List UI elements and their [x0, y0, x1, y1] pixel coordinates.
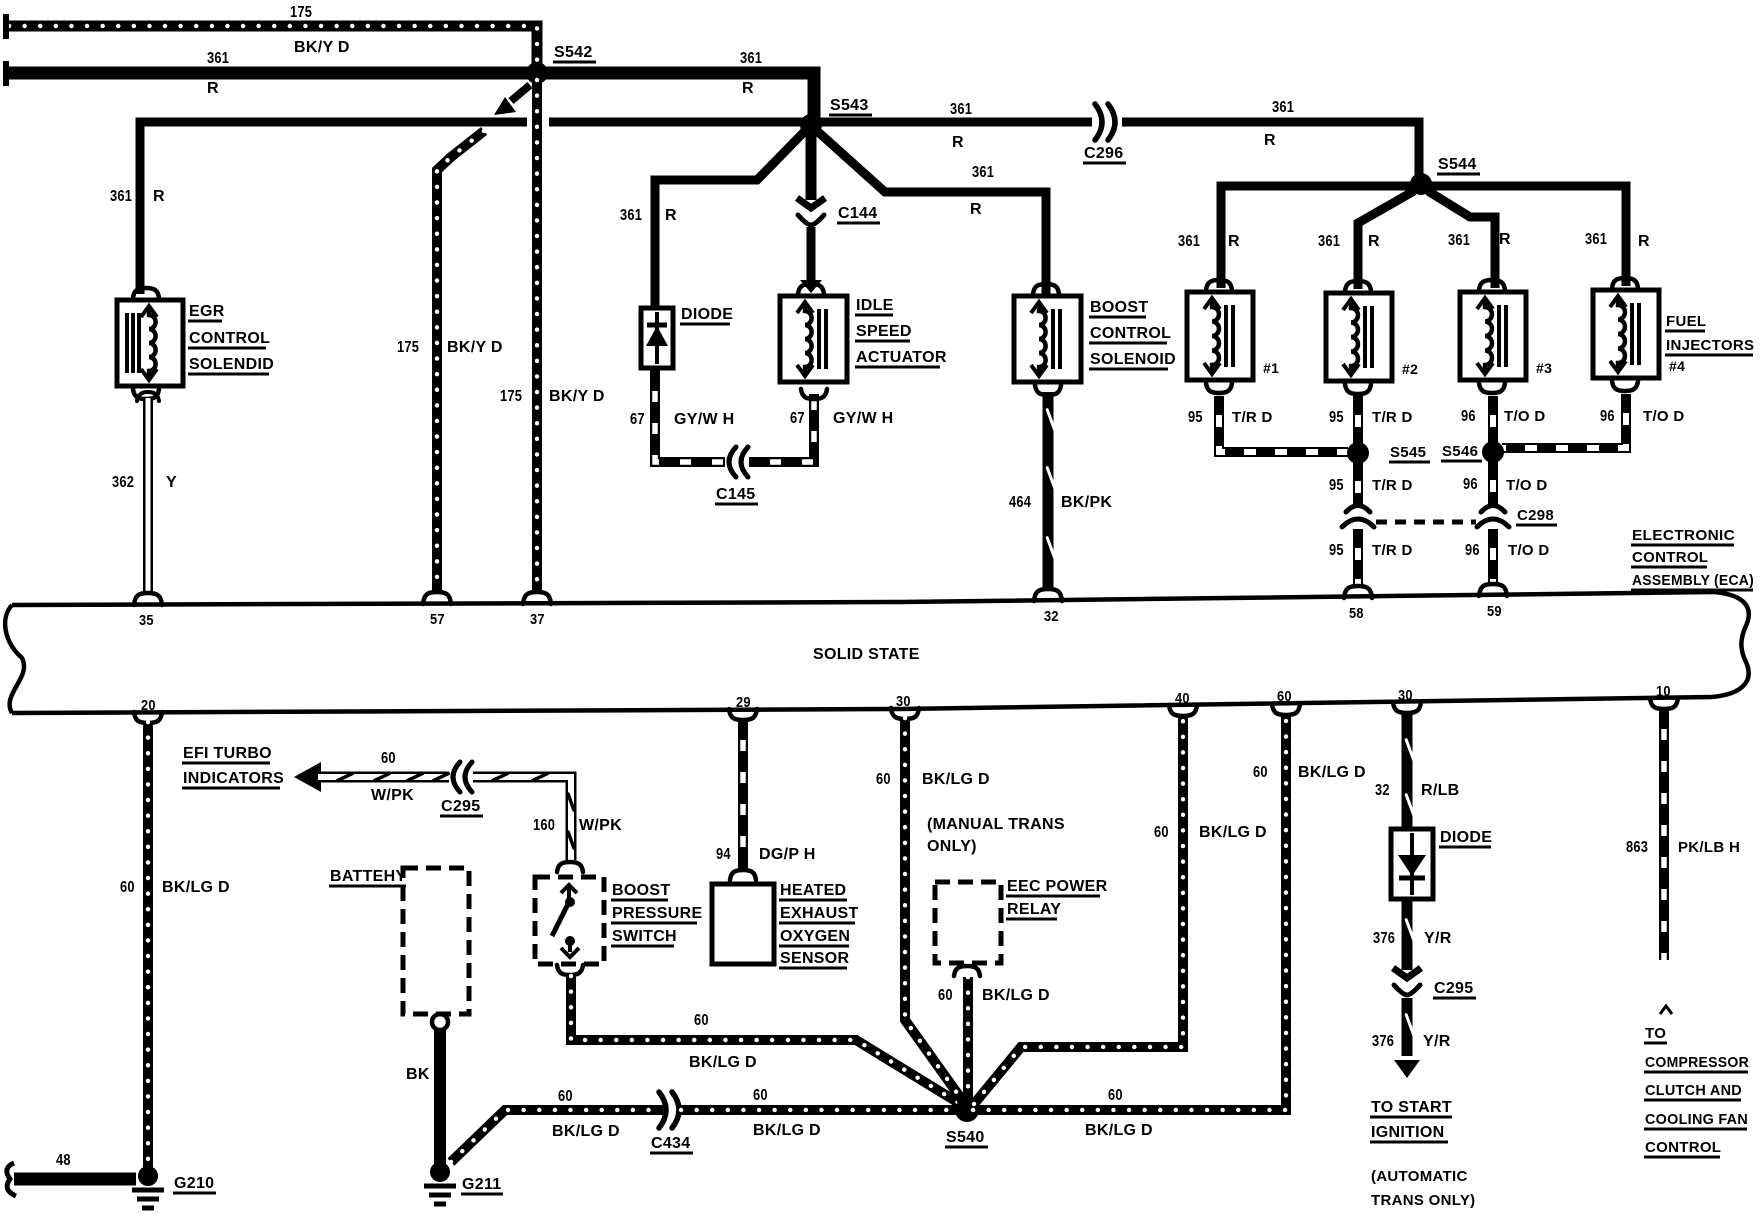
- svg-text:#1: #1: [1263, 360, 1279, 376]
- svg-text:INDICATORS: INDICATORS: [183, 770, 284, 787]
- wire 60 BK/LG D from C434 to S540: [681, 1105, 961, 1115]
- wire S544 branch to injector 1: [1221, 186, 1421, 288]
- svg-text:DG/P H: DG/P H: [759, 846, 816, 863]
- svg-text:BK/LG D: BK/LG D: [753, 1122, 821, 1139]
- svg-text:BK/Y D: BK/Y D: [447, 339, 503, 356]
- svg-text:(AUTOMATIC: (AUTOMATIC: [1371, 1168, 1468, 1185]
- wire 60 BK/LG D relay to S540: [963, 977, 973, 1100]
- wire 95 T/R D injector2 to S545: [1353, 396, 1363, 444]
- fuel injector #2 connector top: [1345, 281, 1371, 291]
- fuel injector #2: [1326, 293, 1392, 381]
- battery BAT1 (dashed): [403, 868, 469, 1014]
- wire 96 T/O D injector3 to S546: [1488, 396, 1498, 443]
- svg-text:20: 20: [141, 697, 156, 714]
- HEGO sensor connector top: [730, 870, 756, 880]
- svg-text:PRESSURE: PRESSURE: [612, 905, 702, 922]
- svg-text:48: 48: [56, 1152, 71, 1169]
- svg-text:T/O D: T/O D: [1508, 542, 1550, 559]
- svg-text:SOLENDID: SOLENDID: [189, 356, 274, 373]
- svg-text:SWITCH: SWITCH: [612, 928, 677, 945]
- svg-text:BK/LG D: BK/LG D: [922, 771, 990, 788]
- wire 96 T/O D injector4 to S546: [1502, 394, 1626, 448]
- svg-text:BK/PK: BK/PK: [1061, 494, 1112, 511]
- svg-text:TO: TO: [1645, 1025, 1666, 1042]
- EEC power relay K1 (dashed): [935, 882, 1001, 963]
- boost control solenoid connector top: [1033, 284, 1059, 294]
- connector C298 at pin59 wire: [1481, 506, 1505, 513]
- C298 dashed tie line: [1376, 520, 1476, 525]
- boost pressure switch connector bottom: [557, 965, 583, 975]
- svg-text:BK/LG D: BK/LG D: [982, 987, 1050, 1004]
- svg-text:BK/LG D: BK/LG D: [1085, 1122, 1153, 1139]
- small arrow above TO (compressor): [1660, 1006, 1672, 1014]
- cup at ECA pin 35: [134, 593, 162, 605]
- svg-text:BK: BK: [406, 1066, 430, 1083]
- svg-text:BK/Y D: BK/Y D: [549, 388, 605, 405]
- arrow to start ignition: [1394, 1060, 1420, 1078]
- svg-text:175: 175: [500, 388, 522, 405]
- svg-text:PK/LB H: PK/LB H: [1678, 839, 1740, 856]
- svg-text:37: 37: [530, 611, 545, 628]
- svg-text:362: 362: [112, 474, 134, 491]
- svg-text:IGNITION: IGNITION: [1371, 1124, 1445, 1141]
- svg-text:CONTROL: CONTROL: [1090, 325, 1171, 342]
- wire 60 BK/LG D pin30 to S540 (manual trans): [905, 718, 965, 1104]
- svg-text:361: 361: [207, 50, 229, 67]
- svg-text:INJECTORS: INJECTORS: [1666, 337, 1754, 354]
- svg-text:COMPRESSOR: COMPRESSOR: [1645, 1054, 1749, 1071]
- svg-text:361: 361: [740, 50, 762, 67]
- idle speed actuator connector top: [798, 284, 824, 294]
- wire 361 R segment across dotted crossing: [549, 118, 811, 127]
- svg-text:S546: S546: [1442, 443, 1478, 460]
- wire 32 R/LB pin30 to diode: [1402, 712, 1413, 828]
- wire 175 BK/Y D top horizontal: [9, 26, 537, 68]
- svg-text:Y: Y: [166, 474, 177, 491]
- cup at ECA pin 58: [1344, 586, 1372, 598]
- svg-text:CONTROL: CONTROL: [189, 330, 270, 347]
- splice S542: [526, 62, 548, 84]
- wire 863 PK/LB H pin10 to compressor clutch: [1659, 708, 1669, 960]
- svg-text:376: 376: [1373, 930, 1395, 947]
- svg-text:BK/LG D: BK/LG D: [162, 879, 230, 896]
- cup at ECA pin 10: [1650, 698, 1678, 709]
- idle speed actuator U2: [780, 296, 847, 382]
- svg-text:R: R: [1264, 132, 1276, 149]
- svg-text:94: 94: [716, 846, 731, 863]
- svg-text:HEATED: HEATED: [780, 882, 846, 899]
- svg-text:60: 60: [1277, 688, 1292, 705]
- connector C298 at pin58 wire: [1346, 506, 1370, 513]
- svg-text:GY/W H: GY/W H: [674, 411, 734, 428]
- splice S543: [800, 114, 822, 136]
- wire 96 T/O D from C298 to ECA pin 59: [1488, 529, 1498, 585]
- svg-text:R: R: [153, 188, 165, 205]
- wire 376 Y/R diode to C295: [1402, 899, 1413, 970]
- cup at ECA pin 57: [423, 592, 451, 604]
- boost pressure switch connector top: [557, 862, 583, 872]
- svg-text:R: R: [970, 201, 982, 218]
- svg-text:60: 60: [558, 1088, 573, 1105]
- wire 95 T/R D from S545 to C298: [1353, 462, 1363, 505]
- svg-text:57: 57: [430, 611, 445, 628]
- fuel injector #4 connector bottom: [1612, 381, 1638, 391]
- wire S544 branch to injector 3: [1428, 191, 1495, 288]
- svg-text:361: 361: [1585, 231, 1607, 248]
- svg-text:60: 60: [753, 1087, 768, 1104]
- svg-text:TRANS ONLY): TRANS ONLY): [1371, 1192, 1475, 1209]
- svg-text:#3: #3: [1536, 360, 1552, 376]
- wire 48 to G210: [14, 1173, 136, 1186]
- svg-text:BK/LG D: BK/LG D: [689, 1054, 757, 1071]
- arrow to EFI turbo indicators: [294, 762, 321, 792]
- svg-text:361: 361: [950, 101, 972, 118]
- wire 60 W/PK arrow to C295: [318, 772, 449, 783]
- cup at ECA pin 29: [729, 709, 757, 720]
- wire end cap left (175): [3, 14, 9, 39]
- svg-text:BOOST: BOOST: [612, 882, 670, 899]
- svg-text:59: 59: [1487, 603, 1502, 620]
- svg-text:96: 96: [1465, 542, 1480, 559]
- svg-text:361: 361: [110, 188, 132, 205]
- svg-text:SPEED: SPEED: [856, 323, 912, 340]
- svg-text:ONLY): ONLY): [927, 838, 977, 855]
- svg-text:FUEL: FUEL: [1666, 313, 1706, 330]
- svg-text:175: 175: [290, 4, 312, 21]
- svg-text:C295: C295: [1434, 980, 1473, 997]
- svg-text:GY/W H: GY/W H: [833, 410, 893, 427]
- svg-text:RELAY: RELAY: [1007, 901, 1061, 918]
- wire 95 T/R D injector1 to S545: [1219, 396, 1348, 452]
- fuel injector #1: [1187, 292, 1253, 380]
- heated exhaust oxygen sensor U4: [712, 884, 774, 964]
- ground G211: [430, 1162, 450, 1182]
- wire 48 curly end cap: [7, 1163, 16, 1196]
- svg-text:T/R D: T/R D: [1232, 409, 1273, 426]
- wire 60 BK/LG D switch to S540: [571, 976, 967, 1108]
- connector C296: [1104, 114, 1111, 130]
- svg-text:#2: #2: [1402, 361, 1418, 377]
- svg-text:95: 95: [1329, 409, 1344, 426]
- wire 361 R branch S543 to diode: [655, 130, 806, 306]
- svg-text:95: 95: [1329, 542, 1344, 559]
- diode D1 box: [641, 308, 673, 368]
- svg-text:C145: C145: [716, 486, 755, 503]
- svg-text:C298: C298: [1517, 507, 1554, 524]
- svg-text:30: 30: [1398, 687, 1413, 704]
- svg-text:T/O D: T/O D: [1643, 408, 1685, 425]
- wire end cap left (361): [3, 61, 9, 86]
- cup at ECA pin 32: [1034, 589, 1062, 601]
- svg-text:361: 361: [620, 207, 642, 224]
- svg-text:TO START: TO START: [1371, 1099, 1452, 1116]
- battery terminal circle: [432, 1014, 448, 1030]
- EEC power relay connector bottom: [954, 966, 980, 976]
- fuel injector #4: [1593, 290, 1659, 378]
- svg-text:60: 60: [1154, 824, 1169, 841]
- wire C144 to idle speed actuator: [807, 227, 816, 281]
- wire 60 BK/LG D S540 to ECA pin 40: [974, 715, 1183, 1104]
- svg-text:R: R: [1228, 233, 1240, 250]
- boost pressure switch SW1 (dashed): [535, 877, 604, 964]
- svg-text:ACTUATOR: ACTUATOR: [856, 349, 947, 366]
- svg-text:R: R: [207, 80, 219, 97]
- svg-text:361: 361: [1448, 232, 1470, 249]
- svg-text:R/LB: R/LB: [1421, 782, 1460, 799]
- svg-text:CONTROL: CONTROL: [1645, 1139, 1721, 1156]
- svg-text:T/R D: T/R D: [1372, 409, 1413, 426]
- svg-text:EGR: EGR: [189, 303, 225, 320]
- wire 94 DG/P H pin29 to HEGO sensor: [738, 719, 748, 868]
- svg-text:S544: S544: [1438, 156, 1477, 173]
- diode D1 symbol: [655, 312, 659, 364]
- wire 361 R main horizontal: [9, 73, 814, 122]
- svg-text:#4: #4: [1669, 358, 1685, 374]
- svg-text:W/PK: W/PK: [371, 787, 414, 804]
- svg-text:361: 361: [1178, 233, 1200, 250]
- connector C434: [668, 1102, 675, 1118]
- wire 60 BK/LG D pin20 to ground G210: [143, 722, 153, 1168]
- wire 60 BK/LG D from G211 to C434: [451, 1110, 663, 1162]
- splice S546: [1482, 441, 1504, 463]
- EGR wire top cup: [137, 392, 159, 401]
- svg-text:S540: S540: [946, 1129, 985, 1146]
- svg-text:60: 60: [1253, 764, 1268, 781]
- svg-text:29: 29: [736, 694, 751, 711]
- svg-text:95: 95: [1188, 409, 1203, 426]
- svg-text:C144: C144: [838, 205, 877, 222]
- svg-text:C434: C434: [651, 1135, 690, 1152]
- EGR control solenoid U1: [117, 300, 183, 386]
- connector C145: [734, 454, 741, 470]
- svg-text:361: 361: [1318, 233, 1340, 250]
- svg-text:Y/R: Y/R: [1424, 930, 1452, 947]
- svg-text:BK/LG D: BK/LG D: [1298, 764, 1366, 781]
- svg-text:IDLE: IDLE: [856, 297, 894, 314]
- wire S543 drop to connector C144: [806, 130, 817, 200]
- svg-text:BK/LG D: BK/LG D: [1199, 824, 1267, 841]
- svg-text:R: R: [665, 207, 677, 224]
- svg-text:C295: C295: [441, 798, 480, 815]
- svg-text:R: R: [1368, 233, 1380, 250]
- wire 361 R branch S543 to boost control solenoid: [816, 130, 1046, 294]
- svg-text:160: 160: [533, 817, 555, 834]
- svg-text:464: 464: [1009, 494, 1031, 511]
- wire BK battery to G211: [434, 1030, 446, 1164]
- svg-text:CLUTCH AND: CLUTCH AND: [1645, 1082, 1742, 1099]
- wire 160 W/PK from C295 to boost pressure switch: [473, 777, 571, 860]
- cup at ECA pin 37: [523, 592, 551, 604]
- svg-text:40: 40: [1175, 690, 1190, 707]
- svg-text:95: 95: [1329, 477, 1344, 494]
- svg-text:T/O D: T/O D: [1504, 408, 1546, 425]
- svg-text:67: 67: [630, 411, 645, 428]
- fuel injector #3 connector bottom: [1479, 383, 1505, 393]
- wire 96 T/O D from S546 to C298: [1488, 461, 1498, 505]
- svg-text:R: R: [742, 80, 754, 97]
- svg-text:ELECTRONIC: ELECTRONIC: [1632, 527, 1735, 544]
- wire 175 BK/Y D drop from S542 to ECA pin 37: [532, 80, 542, 594]
- svg-text:BATTEHY: BATTEHY: [330, 868, 406, 885]
- svg-text:G211: G211: [462, 1176, 501, 1193]
- cup at ECA pin 60: [1272, 704, 1300, 715]
- svg-text:96: 96: [1461, 408, 1476, 425]
- svg-text:S543: S543: [830, 97, 869, 114]
- fuel injector #3 connector top: [1479, 280, 1505, 290]
- wire S544 branch to injector 2: [1358, 191, 1414, 289]
- svg-text:35: 35: [139, 612, 154, 629]
- diode D2 symbol: [1410, 833, 1414, 895]
- svg-text:10: 10: [1656, 683, 1671, 700]
- svg-text:(MANUAL TRANS: (MANUAL TRANS: [927, 816, 1065, 833]
- fuel injector #1 connector top: [1206, 280, 1232, 290]
- svg-text:CONTROL: CONTROL: [1632, 549, 1708, 566]
- svg-text:361: 361: [1272, 99, 1294, 116]
- diode D2 box: [1391, 829, 1433, 899]
- svg-text:58: 58: [1349, 605, 1364, 622]
- svg-text:60: 60: [381, 750, 396, 767]
- svg-text:C296: C296: [1084, 145, 1123, 162]
- svg-text:G210: G210: [174, 1175, 214, 1192]
- svg-text:DIODE: DIODE: [681, 306, 733, 323]
- svg-text:S545: S545: [1390, 444, 1426, 461]
- svg-text:Y/R: Y/R: [1423, 1033, 1451, 1050]
- ECA band torn left edge: [5, 605, 24, 713]
- svg-text:BOOST: BOOST: [1090, 299, 1148, 316]
- boost control solenoid U3: [1014, 296, 1081, 382]
- wire 67 GY/W H diode to C145: [655, 370, 725, 462]
- svg-text:EFI TURBO: EFI TURBO: [183, 745, 272, 762]
- wire 376 Y/R C295 to start ignition: [1402, 998, 1413, 1056]
- connector C295 (EFI turbo): [458, 769, 465, 785]
- svg-text:96: 96: [1600, 408, 1615, 425]
- ECA band torn right edge: [1712, 592, 1749, 697]
- svg-text:SOLENOID: SOLENOID: [1090, 351, 1176, 368]
- svg-text:R: R: [1499, 231, 1511, 248]
- cup at ECA pin 59: [1479, 584, 1507, 596]
- wire 362 Y from EGR to ECA pin 35: [143, 398, 153, 592]
- svg-text:W/PK: W/PK: [579, 817, 622, 834]
- svg-text:361: 361: [972, 164, 994, 181]
- svg-text:SOLID STATE: SOLID STATE: [813, 646, 920, 663]
- svg-text:EXHAUST: EXHAUST: [780, 905, 859, 922]
- svg-text:R: R: [1638, 233, 1650, 250]
- svg-text:863: 863: [1626, 839, 1648, 856]
- svg-text:60: 60: [1108, 1087, 1123, 1104]
- svg-text:60: 60: [938, 987, 953, 1004]
- boost solenoid connector bottom: [1035, 385, 1061, 395]
- svg-text:DIODE: DIODE: [1440, 829, 1492, 846]
- fuel injector #3: [1460, 292, 1526, 380]
- ground G210: [138, 1166, 158, 1186]
- svg-text:OXYGEN: OXYGEN: [780, 928, 850, 945]
- arrow from S542 down-left: [511, 85, 530, 101]
- svg-text:32: 32: [1044, 608, 1059, 625]
- wire 361 R from C296 to S544: [1122, 122, 1419, 180]
- svg-text:60: 60: [876, 771, 891, 788]
- arrow into idle speed actuator: [800, 280, 822, 293]
- svg-text:COOLING FAN: COOLING FAN: [1645, 1111, 1748, 1128]
- svg-text:T/O D: T/O D: [1506, 477, 1548, 494]
- svg-text:EEC POWER: EEC POWER: [1007, 878, 1108, 895]
- cup at ECA pin 30 (left): [891, 708, 919, 719]
- splice S545: [1347, 442, 1369, 464]
- wire 464 BK/PK boost solenoid to ECA pin 32: [1043, 392, 1054, 588]
- wire 361 R from S543 to C296: [819, 118, 1092, 127]
- boost pressure switch symbol: [561, 885, 577, 893]
- svg-text:R: R: [952, 134, 964, 151]
- EGR control solenoid connector top: [133, 288, 159, 298]
- splice S544: [1410, 173, 1432, 195]
- connector C144 (arrow and socket): [797, 198, 825, 208]
- svg-text:376: 376: [1372, 1033, 1394, 1050]
- svg-text:SENSOR: SENSOR: [780, 950, 850, 967]
- ECA band outline (solid state module): [12, 592, 1714, 605]
- svg-text:67: 67: [790, 410, 805, 427]
- wire 67 GY/W H C145 to idle speed actuator: [749, 394, 814, 462]
- cup at ECA pin 30 (right): [1393, 702, 1421, 713]
- fuel injector #1 connector bottom: [1206, 383, 1232, 393]
- svg-text:32: 32: [1375, 782, 1390, 799]
- EGR solenoid connector bottom: [133, 389, 159, 399]
- svg-text:30: 30: [896, 693, 911, 710]
- svg-text:60: 60: [120, 879, 135, 896]
- splice S540: [955, 1098, 979, 1122]
- svg-text:96: 96: [1463, 476, 1478, 493]
- svg-text:60: 60: [694, 1012, 709, 1029]
- wire 95 T/R D from C298 to ECA pin 58: [1353, 529, 1363, 587]
- idle speed actuator connector bottom: [801, 389, 827, 399]
- wire 361 R branch to EGR solenoid: [140, 122, 527, 294]
- fuel injector #2 connector bottom: [1345, 384, 1371, 394]
- svg-text:T/R D: T/R D: [1372, 542, 1413, 559]
- svg-text:S542: S542: [554, 44, 593, 61]
- svg-text:175: 175: [397, 339, 419, 356]
- cup at ECA pin 40: [1169, 705, 1197, 716]
- wire 60 BK/LG D S540 to ECA pin 60: [973, 714, 1286, 1110]
- wire 175 BK/Y D diagonal to x437 drop to ECA pin 57: [437, 131, 484, 594]
- svg-text:T/R D: T/R D: [1372, 477, 1413, 494]
- svg-text:BK/Y D: BK/Y D: [294, 39, 350, 56]
- fuel injector #4 connector top: [1612, 278, 1638, 288]
- connector C295 (start ignition): [1393, 968, 1421, 978]
- wire S544 branch to injector 4: [1421, 186, 1626, 286]
- svg-text:BK/LG D: BK/LG D: [552, 1123, 620, 1140]
- svg-text:ASSEMBLY (ECA): ASSEMBLY (ECA): [1632, 572, 1754, 589]
- cup at ECA pin 20: [134, 712, 162, 723]
